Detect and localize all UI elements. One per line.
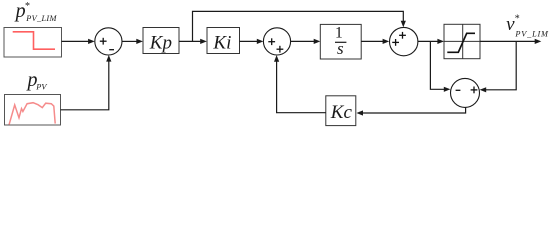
wire Ki to sum2 (240, 40, 259, 42)
step waveform (red) (13, 32, 55, 49)
summing junction sum4 (anti-windup difference) (451, 78, 480, 107)
svg-text:*: * (25, 1, 30, 12)
gain block Kc (326, 96, 356, 126)
label p*_PV_LIM (14, 0, 58, 23)
wire sum2 to integrator (291, 40, 315, 42)
svg-text:p: p (14, 0, 26, 22)
wire p_PV block to sum1 (feedback minus) (61, 60, 109, 110)
PV waveform (red) (9, 103, 55, 125)
svg-text:Kp: Kp (149, 32, 172, 53)
label p_PV (26, 69, 48, 91)
gain block Ki (207, 28, 240, 54)
summing junction sum2 (263, 28, 290, 55)
wire Kp to Ki with branch node (179, 40, 201, 42)
source block P*_PV_LIM (step reference) (4, 28, 62, 58)
summing junction sum3 (390, 27, 418, 55)
integrator block 1/s (320, 24, 361, 59)
source block p_PV (measured PV power) (5, 95, 61, 126)
svg-text:Ki: Ki (212, 32, 231, 53)
summing junction sum1 (95, 28, 122, 55)
wire sum1 to Kp (122, 40, 137, 42)
svg-text:PV_LIM: PV_LIM (514, 29, 549, 38)
wire sum3 to saturation (with branch down) (418, 40, 439, 42)
gain block Kp (143, 28, 179, 54)
wire sum4 to Kc (362, 107, 466, 113)
branch wire down to sum4 left input (430, 41, 445, 89)
feedforward branch wire (top) to sum3 (193, 11, 404, 41)
svg-text:PV: PV (35, 82, 47, 91)
svg-text:*: * (515, 13, 520, 24)
svg-text:v: v (506, 14, 515, 35)
wire Kc to sum2 bottom (277, 60, 326, 112)
svg-text:PV_LIM: PV_LIM (25, 14, 57, 23)
svg-text:Kc: Kc (330, 102, 353, 123)
svg-text:s: s (337, 39, 344, 58)
saturation block (444, 24, 480, 58)
wire step block to sum1 (62, 40, 90, 42)
output branch wire down to sum4 right input (485, 41, 516, 89)
wire integrator to sum3 (361, 40, 383, 42)
output wire with branch down (480, 40, 536, 42)
label v*_PV_LIM (506, 13, 549, 38)
